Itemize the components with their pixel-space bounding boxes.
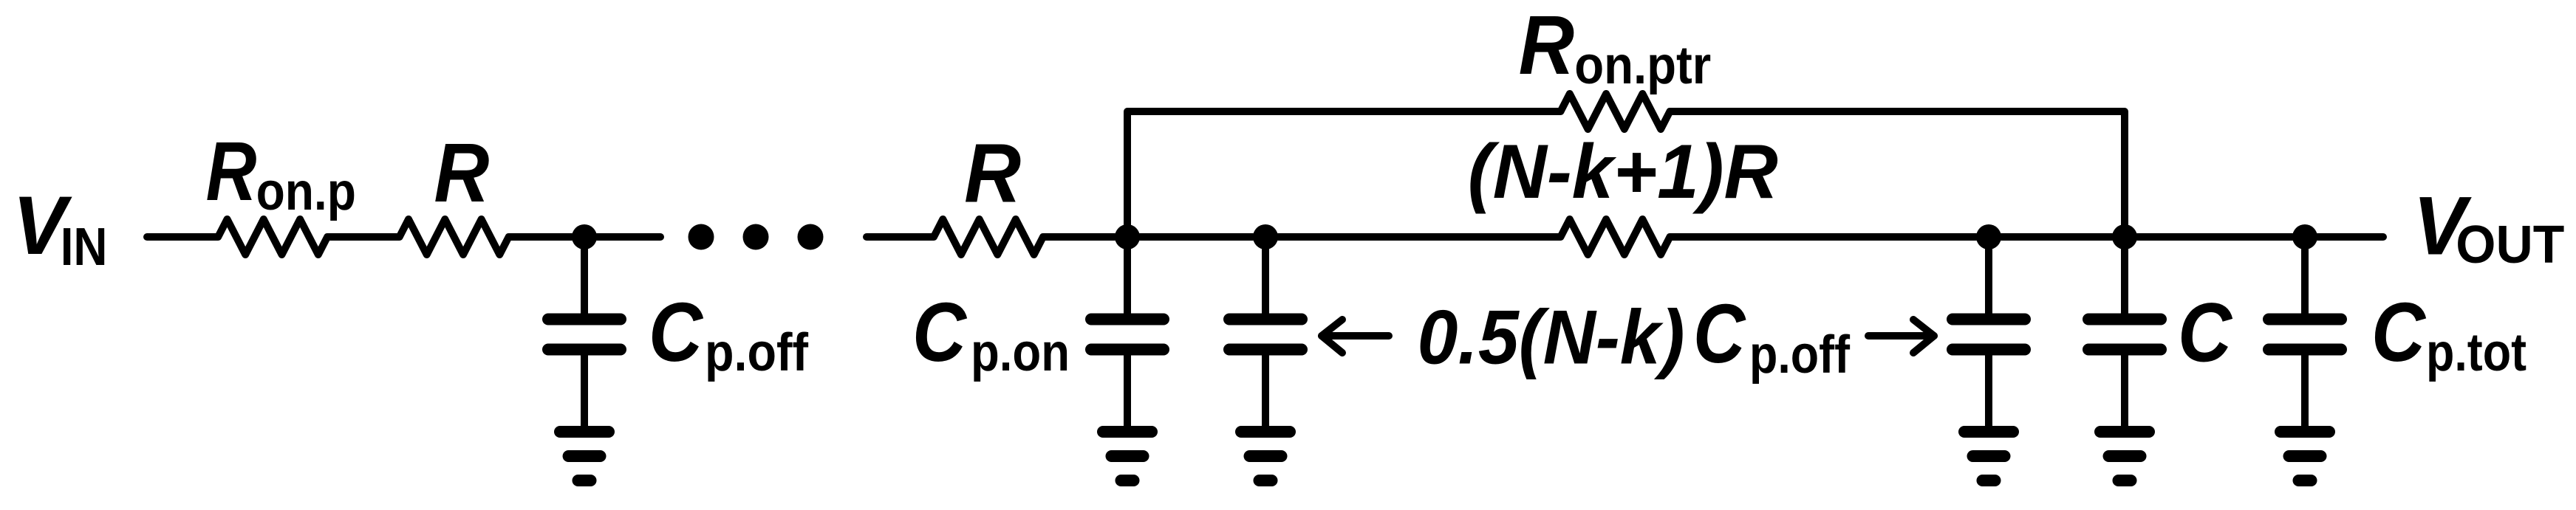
capacitor C_p.off: top plate	[548, 314, 621, 325]
capacitor C: lead from node to top plate	[2121, 237, 2128, 320]
svg-text:(N-k+1)R: (N-k+1)R	[1468, 129, 1778, 215]
svg-text:on.ptr: on.ptr	[1574, 36, 1711, 95]
svg-text:OUT: OUT	[2456, 216, 2564, 275]
node B (tap, top branch left, C_p.on)	[1115, 224, 1140, 249]
ground	[2100, 432, 2149, 480]
wire from bottom plate to ground	[581, 350, 588, 433]
capacitor C_p.on: top plate	[1091, 314, 1164, 325]
arrow pointing right (0.5(N-k)C_p.off callout)	[1868, 320, 1934, 353]
wire from bottom plate to ground	[1262, 350, 1269, 433]
svg-text:R: R	[434, 126, 489, 219]
svg-text:p.on: p.on	[971, 323, 1070, 382]
capacitor C: top plate	[2088, 314, 2161, 325]
svg-text:C: C	[2371, 286, 2426, 379]
capacitor C_p.tot: top plate	[2269, 314, 2341, 325]
node F (output, C_p.tot)	[2292, 224, 2317, 249]
capacitor 0.5(N-k)C_p.off right: lead from node to top plate	[1985, 237, 1992, 320]
capacitor C_p.on: bottom plate	[1091, 344, 1164, 356]
svg-text:IN: IN	[61, 218, 108, 277]
wire: top bypass branch with resistor R_on.ptr	[1127, 94, 2125, 237]
svg-text:C: C	[2178, 286, 2232, 379]
wire: from ellipsis through resistor R and resistor (N-k+1)R to output	[867, 219, 2383, 255]
wire from bottom plate to ground	[2301, 350, 2309, 433]
svg-text:p.off: p.off	[705, 323, 809, 382]
capacitor 0.5(N-k)C_p.off left: top plate	[1229, 314, 1302, 325]
wire from bottom plate to ground	[2121, 350, 2128, 433]
svg-text:on.p: on.p	[256, 162, 356, 221]
svg-text:p.off: p.off	[1749, 325, 1851, 385]
ground	[1103, 432, 1152, 480]
ground	[2281, 432, 2329, 480]
capacitor 0.5(N-k)C_p.off right: bottom plate	[1953, 344, 2025, 356]
wire: input lead, resistor R_on.p, resistor R, wire to ellipsis	[147, 219, 660, 255]
node C (0.5(N-k)C_p.off left)	[1253, 224, 1278, 249]
capacitor 0.5(N-k)C_p.off left: lead from node to top plate	[1262, 237, 1269, 320]
ellipsis dots (circuit continuation)	[689, 224, 824, 250]
ground	[1964, 432, 2013, 480]
svg-text:C: C	[1693, 287, 1746, 380]
svg-text:R: R	[206, 125, 257, 218]
svg-text:0.5(N-k): 0.5(N-k)	[1418, 295, 1685, 381]
ground	[560, 432, 609, 480]
ground	[1241, 432, 1290, 480]
capacitor 0.5(N-k)C_p.off left: bottom plate	[1229, 344, 1302, 356]
node E (top branch right, cap C)	[2112, 224, 2137, 249]
wire from bottom plate to ground	[1124, 350, 1131, 433]
capacitor C_p.off: bottom plate	[548, 344, 621, 356]
svg-text:R: R	[1519, 0, 1574, 92]
capacitor C_p.off: lead from node to top plate	[581, 237, 588, 320]
node D (0.5(N-k)C_p.off right)	[1976, 224, 2001, 249]
svg-text:p.tot: p.tot	[2426, 323, 2527, 382]
capacitor C: bottom plate	[2088, 344, 2161, 356]
wire from bottom plate to ground	[1985, 350, 1992, 433]
svg-text:C: C	[649, 286, 703, 379]
arrow pointing left (0.5(N-k)C_p.off callout)	[1322, 320, 1389, 353]
capacitor 0.5(N-k)C_p.off right: top plate	[1953, 314, 2025, 325]
capacitor C_p.on: lead from node to top plate	[1124, 237, 1131, 320]
node A (C_p.off tap)	[572, 224, 597, 249]
svg-text:R: R	[964, 127, 1021, 220]
capacitor C_p.tot: bottom plate	[2269, 344, 2341, 356]
svg-text:C: C	[912, 286, 967, 379]
capacitor C_p.tot: lead from node to top plate	[2301, 237, 2309, 320]
